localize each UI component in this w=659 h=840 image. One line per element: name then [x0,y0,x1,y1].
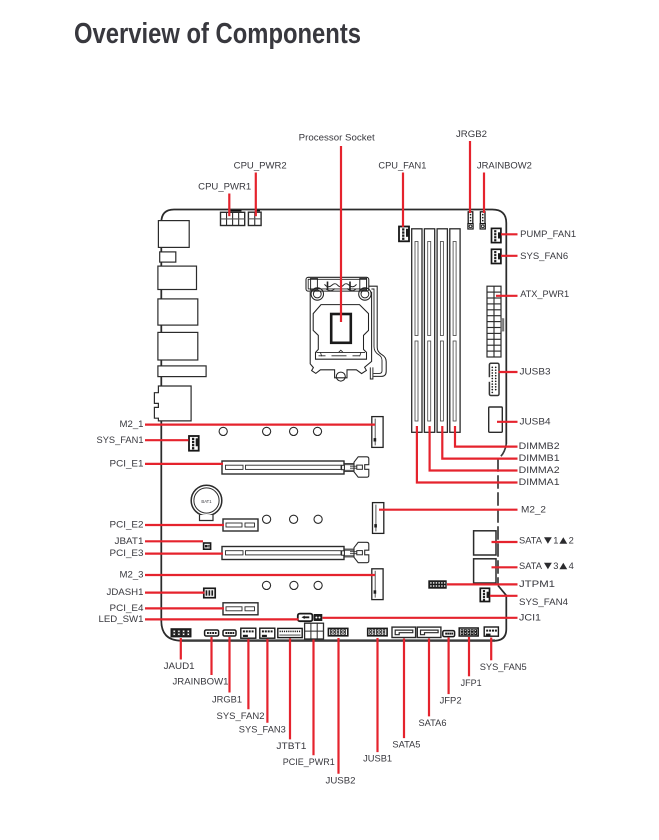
leader line JDASH1 [145,591,205,593]
DIMM slot DIMMB2 [450,229,460,432]
svg-text:DIMMB2: DIMMB2 [519,441,560,451]
svg-text:JUSB4: JUSB4 [520,416,551,426]
svg-text:JRAINBOW1: JRAINBOW1 [173,677,229,687]
svg-text:ATX_PWR1: ATX_PWR1 [520,289,569,299]
mounting holes row 1 [219,427,322,435]
connector JRAINBOW1 [205,630,219,636]
leader line M2_3 [145,574,375,576]
M.2 slot M2_2 [373,503,384,534]
connector CPU_PWR1 (8-pin) [221,211,245,226]
svg-text:SYS_FAN6: SYS_FAN6 [520,251,568,261]
motherboard outline (dashed segment, right edge) [498,444,506,586]
leader line SYS_FAN2 [247,639,249,709]
svg-text:2: 2 [569,536,574,546]
svg-text:JUSB1: JUSB1 [363,754,392,764]
svg-text:Processor Socket: Processor Socket [299,133,375,143]
connector JTPM1 [429,581,446,588]
svg-text:JRGB1: JRGB1 [212,694,242,704]
leader line PCI_E2 [145,524,224,526]
leader line PCI_E1 [145,463,223,465]
svg-text:PUMP_FAN1: PUMP_FAN1 [520,229,576,239]
M.2 slot M2_1 [372,417,383,448]
DIMM slot DIMMA2 [424,229,434,432]
svg-text:JUSB2: JUSB2 [326,775,356,785]
svg-text:DIMMB1: DIMMB1 [519,453,560,463]
leader line M2_1 [145,424,375,426]
PCIe slot PCI_E4 [223,603,258,615]
svg-text:LED_SW1: LED_SW1 [99,614,144,624]
svg-text:SATA: SATA [519,561,543,571]
leader line PCI_E3 [145,552,223,554]
leader line JRAINBOW1 [210,637,212,675]
connector SYS_FAN5 [484,627,498,636]
leader line JRAINBOW2 [483,173,485,214]
SATA ports SATA1/SATA2 (side box) [474,531,496,555]
svg-text:3: 3 [553,561,558,571]
svg-text:BAT1: BAT1 [201,499,212,504]
battery BAT1 [191,485,222,520]
svg-text:PCI_E4: PCI_E4 [110,603,144,613]
svg-text:JDASH1: JDASH1 [107,587,144,597]
connector JTBT1 [278,628,302,637]
svg-text:4: 4 [569,561,574,571]
leader line SYS_FAN5 [490,638,492,661]
connector JUSB2 [328,628,347,635]
label SATA1/SATA2 [519,536,574,546]
svg-text:SYS_FAN4: SYS_FAN4 [519,597,568,607]
leader line LED_SW1 [145,618,299,620]
connector JAUD1 [171,629,191,637]
leader line PCI_E4 [145,607,224,609]
svg-text:DIMMA2: DIMMA2 [519,465,560,475]
connector JRGB1 [223,630,236,636]
leader line SATA1/2 [492,541,518,543]
connector CPU_FAN1 [399,227,409,242]
DIMM slot DIMMA1 [412,229,422,432]
svg-text:PCI_E3: PCI_E3 [110,548,144,558]
svg-text:SYS_FAN5: SYS_FAN5 [480,662,527,672]
svg-text:M2_1: M2_1 [120,419,144,429]
connector PUMP_FAN1 [492,228,501,242]
SATA port SATA5 [392,627,416,637]
M.2 slot M2_3 [372,569,383,600]
svg-text:JTPM1: JTPM1 [519,579,555,589]
leader line JUSB2 [337,638,339,774]
connector CPU_PWR2 (4-pin) [248,211,261,226]
rear I/O block: LAN/USB [158,266,197,289]
svg-text:JRGB2: JRGB2 [456,129,487,139]
leader line SYS_FAN3 [266,639,268,723]
connector JFP1 [459,628,478,636]
svg-text:SYS_FAN2: SYS_FAN2 [217,711,265,721]
mounting holes row 3 [262,581,322,589]
svg-text:CPU_PWR2: CPU_PWR2 [234,160,287,170]
leader line DIMMA1 [417,426,518,483]
connector JCI1 (chassis intrusion) [314,615,322,621]
svg-text:PCI_E2: PCI_E2 [110,520,144,530]
svg-text:JBAT1: JBAT1 [115,536,144,546]
leader line DIMMB1 [442,426,517,459]
leader line JTBT1 [289,639,291,740]
leader line CPU_PWR2 [255,173,257,217]
DIMM slot DIMMB1 [437,229,447,432]
leader line JRGB1 [228,637,230,693]
svg-text:JFP2: JFP2 [440,696,462,706]
connector SYS_FAN3 [260,628,275,638]
connector JUSB3 (USB-C front header) [488,363,499,395]
svg-text:JTBT1: JTBT1 [276,741,306,751]
leader line DIMMA2 [430,426,518,471]
svg-text:1: 1 [553,536,558,546]
svg-text:M2_3: M2_3 [120,570,144,580]
svg-text:SYS_FAN1: SYS_FAN1 [97,435,144,445]
connector SYS_FAN2 [241,628,256,638]
svg-text:JCI1: JCI1 [519,612,541,622]
mounting holes row 2 [263,515,323,523]
svg-text:PCI_E1: PCI_E1 [110,459,144,469]
leader line JBAT1 [145,540,203,542]
connector JUSB1 [368,628,387,635]
leader line JUSB3 [499,371,518,373]
svg-text:JAUD1: JAUD1 [164,661,195,671]
leader line JAUD1 [180,638,182,660]
leader line Processor Socket [340,146,342,322]
rear I/O block: video out (thin) [158,366,206,377]
leader line ATX_PWR1 [496,295,518,297]
svg-text:SATA: SATA [519,536,543,546]
connector JRGB2 [468,212,473,229]
motherboard bottom edge (thicker) [180,639,495,641]
leader line JFP1 [468,637,470,676]
rear I/O block: small port [160,252,176,262]
connector SYS_FAN4 [480,588,489,601]
leader line JRGB2 [469,141,471,213]
rear I/O block: USB stack [158,299,198,325]
connector ATX_PWR1 (24-pin) [487,286,504,357]
leader line SYS_FAN4 [490,595,518,597]
rear I/O block: USB ports [158,221,189,248]
rear I/O block: audio jacks (notched) [154,386,191,421]
svg-text:SYS_FAN3: SYS_FAN3 [239,724,286,734]
jumper JBAT1 [204,543,211,549]
SATA ports SATA3/SATA4 (side box) [474,559,496,583]
svg-text:M2_2: M2_2 [521,504,546,514]
svg-text:Overview of Components: Overview of Components [74,18,361,50]
connector JFP2 [443,631,455,637]
leader line CPU_FAN1 [402,173,404,228]
svg-text:JFP1: JFP1 [461,678,482,688]
svg-text:SATA5: SATA5 [392,740,420,750]
PCIe slot PCI_E3 [222,542,369,562]
leader line PCIE_PWR1 [312,640,314,756]
leader line CPU_PWR1 [228,194,230,217]
svg-text:JRAINBOW2: JRAINBOW2 [477,160,532,170]
connector SYS_FAN1 [189,436,199,451]
leader line JFP2 [448,638,450,695]
leader line DIMMB2 [455,426,518,447]
PCIe slot PCI_E2 [223,519,258,531]
leader line JCI1 [323,617,518,619]
leader line JUSB1 [376,638,378,752]
connector JRAINBOW2 [480,212,485,229]
leader line SATA3/4 [492,566,518,568]
leader line SATA6 [428,639,430,717]
motherboard outline (solid) [161,210,506,641]
label SATA3/SATA4 [519,561,574,571]
leader line SYS_FAN6 [501,255,518,257]
SATA port SATA6 [417,627,441,637]
leader line SYS_FAN1 [145,439,189,441]
leader line M2_2 [379,509,518,511]
leader line JUSB4 [497,421,518,423]
CPU socket (LGA) [306,277,386,381]
svg-text:JUSB3: JUSB3 [520,367,551,377]
svg-text:CPU_PWR1: CPU_PWR1 [198,181,251,191]
svg-text:CPU_FAN1: CPU_FAN1 [378,160,426,170]
connector PCIE_PWR1 (6-pin) [305,623,324,639]
connector SYS_FAN6 [492,249,501,263]
svg-text:DIMMA1: DIMMA1 [519,477,560,487]
PCIe slot PCI_E1 [222,457,369,477]
svg-text:PCIE_PWR1: PCIE_PWR1 [283,757,335,767]
connector JUSB4 (USB header) [489,407,503,432]
leader line PUMP_FAN1 [501,233,518,235]
switch LED_SW1 [298,614,313,622]
svg-text:SATA6: SATA6 [419,718,447,728]
connector JDASH1 [204,588,215,597]
leader line JTPM1 [447,583,518,585]
rear I/O block: USB stack 2 [158,332,198,360]
leader line SATA5 [403,639,405,739]
